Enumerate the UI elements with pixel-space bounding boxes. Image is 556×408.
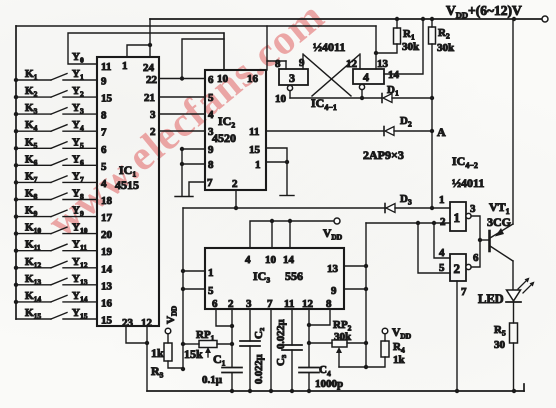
svg-text:1: 1 — [208, 267, 214, 279]
svg-text:6: 6 — [212, 298, 218, 310]
svg-text:10: 10 — [265, 254, 277, 266]
svg-text:3: 3 — [246, 298, 252, 310]
svg-text:Y2: Y2 — [72, 85, 84, 99]
svg-text:½4011: ½4011 — [452, 176, 484, 190]
svg-text:IC1: IC1 — [119, 163, 136, 179]
svg-text:A: A — [437, 125, 446, 139]
svg-text:8: 8 — [275, 58, 281, 70]
svg-text:Y13: Y13 — [72, 273, 88, 287]
svg-text:8: 8 — [326, 298, 332, 310]
svg-text:RP1: RP1 — [196, 329, 215, 343]
svg-text:7: 7 — [207, 177, 213, 189]
svg-text:R2: R2 — [438, 27, 450, 41]
svg-text:D1: D1 — [387, 84, 399, 98]
svg-text:5: 5 — [439, 262, 445, 274]
svg-text:4520: 4520 — [212, 131, 236, 145]
svg-text:14: 14 — [388, 69, 400, 81]
svg-text:10: 10 — [275, 93, 287, 105]
svg-text:23: 23 — [122, 317, 134, 329]
svg-text:13: 13 — [101, 280, 113, 292]
svg-text:Y11: Y11 — [72, 239, 87, 253]
svg-text:R5: R5 — [494, 324, 506, 338]
svg-text:11: 11 — [249, 126, 259, 138]
svg-text:9: 9 — [331, 285, 337, 297]
svg-text:10: 10 — [217, 73, 229, 85]
svg-text:K8: K8 — [25, 188, 38, 202]
svg-text:15: 15 — [101, 315, 113, 327]
svg-text:3: 3 — [470, 203, 476, 215]
svg-text:15: 15 — [249, 144, 261, 156]
svg-text:11: 11 — [101, 61, 111, 73]
svg-text:IC3: IC3 — [253, 269, 270, 285]
svg-text:2: 2 — [228, 298, 234, 310]
svg-text:4: 4 — [439, 247, 445, 259]
svg-text:22: 22 — [146, 74, 158, 86]
svg-text:K12: K12 — [25, 256, 41, 270]
svg-text:30k: 30k — [402, 41, 420, 53]
svg-text:Y14: Y14 — [72, 290, 88, 304]
svg-text:30k: 30k — [334, 331, 352, 343]
svg-text:K4: K4 — [25, 119, 38, 133]
svg-text:5: 5 — [208, 92, 214, 104]
svg-text:LED: LED — [478, 292, 504, 306]
svg-text:D3: D3 — [400, 193, 412, 207]
svg-text:R3: R3 — [151, 364, 164, 380]
svg-text:0.1μ: 0.1μ — [202, 374, 223, 386]
svg-text:K6: K6 — [25, 153, 38, 167]
svg-text:14: 14 — [283, 254, 295, 266]
svg-text:2AP9×3: 2AP9×3 — [363, 148, 404, 162]
svg-text:R4: R4 — [393, 341, 405, 355]
svg-text:11: 11 — [284, 298, 294, 310]
svg-text:VDD+(6~12)V: VDD+(6~12)V — [446, 3, 522, 20]
svg-text:C1: C1 — [213, 352, 226, 368]
svg-text:K15: K15 — [25, 307, 41, 321]
svg-text:4: 4 — [245, 254, 251, 266]
svg-text:3: 3 — [150, 109, 156, 121]
svg-text:K5: K5 — [25, 136, 38, 150]
svg-text:5: 5 — [208, 285, 214, 297]
svg-text:K14: K14 — [25, 290, 41, 304]
svg-text:13: 13 — [377, 58, 389, 70]
svg-text:19: 19 — [101, 246, 113, 258]
svg-text:2: 2 — [440, 216, 446, 228]
svg-text:9: 9 — [208, 144, 214, 156]
svg-text:14: 14 — [101, 263, 113, 275]
svg-text:IC2: IC2 — [218, 114, 235, 130]
svg-text:5: 5 — [101, 161, 107, 173]
svg-text:VDD: VDD — [392, 327, 412, 341]
svg-text:8: 8 — [208, 159, 214, 171]
svg-text:4: 4 — [101, 178, 107, 190]
svg-text:Y15: Y15 — [72, 307, 88, 321]
svg-text:15: 15 — [101, 93, 113, 105]
svg-text:12: 12 — [346, 58, 358, 70]
svg-text:Y7: Y7 — [72, 170, 84, 184]
svg-text:1k: 1k — [393, 354, 406, 366]
svg-text:K7: K7 — [25, 170, 38, 184]
svg-text:30k: 30k — [437, 42, 455, 54]
svg-text:24: 24 — [143, 62, 155, 74]
svg-text:2: 2 — [150, 126, 156, 138]
svg-text:Y9: Y9 — [72, 205, 84, 219]
svg-text:17: 17 — [101, 212, 113, 224]
svg-text:Y6: Y6 — [72, 153, 84, 167]
svg-text:3CG: 3CG — [487, 215, 511, 229]
svg-text:12: 12 — [302, 298, 314, 310]
svg-text:1: 1 — [122, 60, 128, 72]
svg-text:556: 556 — [285, 269, 303, 283]
svg-text:K9: K9 — [25, 205, 38, 219]
svg-text:1: 1 — [439, 194, 445, 206]
svg-text:8: 8 — [101, 110, 107, 122]
svg-text:7: 7 — [461, 286, 467, 298]
svg-text:6: 6 — [473, 252, 479, 264]
svg-text:21: 21 — [144, 92, 155, 104]
svg-text:K13: K13 — [25, 273, 41, 287]
svg-text:6: 6 — [208, 74, 214, 86]
svg-text:4: 4 — [208, 109, 214, 121]
svg-text:C₂: C₂ — [253, 327, 265, 339]
svg-text:2: 2 — [454, 261, 461, 276]
svg-text:Y0: Y0 — [72, 51, 84, 65]
svg-text:2: 2 — [232, 178, 238, 190]
svg-text:Y3: Y3 — [72, 102, 84, 116]
svg-text:K3: K3 — [25, 102, 38, 116]
svg-text:1k: 1k — [151, 346, 164, 360]
svg-text:K1: K1 — [25, 68, 38, 82]
svg-text:16: 16 — [247, 73, 259, 85]
svg-text:6: 6 — [101, 144, 107, 156]
svg-text:30: 30 — [494, 339, 506, 351]
svg-text:½4011: ½4011 — [313, 40, 345, 54]
svg-text:18: 18 — [101, 195, 113, 207]
svg-text:4: 4 — [363, 70, 369, 84]
svg-text:13: 13 — [327, 263, 339, 275]
svg-text:7: 7 — [101, 127, 107, 139]
svg-text:0.022μ: 0.022μ — [254, 354, 265, 384]
svg-text:4: 4 — [327, 369, 331, 378]
svg-text:Y12: Y12 — [72, 256, 88, 270]
svg-text:1: 1 — [454, 210, 461, 225]
svg-text:9: 9 — [299, 57, 305, 69]
svg-text:1: 1 — [255, 159, 261, 171]
svg-text:R1: R1 — [403, 28, 415, 42]
svg-text:Y5: Y5 — [72, 136, 84, 150]
svg-text:20: 20 — [101, 229, 113, 241]
svg-text:Y1: Y1 — [72, 68, 84, 82]
svg-text:7: 7 — [267, 298, 273, 310]
svg-text:Y4: Y4 — [72, 119, 84, 133]
svg-text:K2: K2 — [25, 85, 38, 99]
svg-text:VT1: VT1 — [489, 200, 510, 216]
svg-text:16: 16 — [101, 297, 113, 309]
svg-text:C₃: C₃ — [275, 354, 287, 366]
svg-text:K11: K11 — [25, 239, 41, 253]
svg-text:K10: K10 — [25, 222, 41, 236]
svg-text:C: C — [319, 364, 327, 376]
svg-text:VDD: VDD — [323, 228, 343, 242]
svg-text:VDD: VDD — [165, 306, 179, 324]
svg-text:1000p: 1000p — [315, 378, 343, 390]
svg-text:D2: D2 — [400, 115, 412, 129]
svg-text:3: 3 — [289, 71, 295, 85]
svg-text:15k: 15k — [184, 347, 203, 361]
svg-text:4515: 4515 — [115, 178, 139, 192]
svg-text:Y8: Y8 — [72, 188, 84, 202]
svg-text:9: 9 — [101, 76, 107, 88]
svg-text:Y10: Y10 — [72, 222, 88, 236]
svg-text:IC4−2: IC4−2 — [452, 154, 478, 170]
